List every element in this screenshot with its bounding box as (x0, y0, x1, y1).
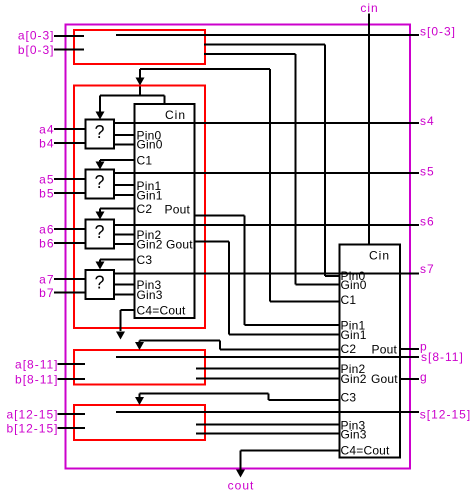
svg-text:s7: s7 (420, 262, 435, 276)
svg-text:b7: b7 (39, 286, 54, 300)
svg-text:?: ? (94, 122, 104, 142)
svg-text:a7: a7 (39, 272, 54, 286)
svg-text:Gin2: Gin2 (341, 372, 367, 386)
svg-text:a[12-15]: a[12-15] (6, 407, 58, 421)
svg-text:cin: cin (360, 1, 378, 15)
svg-text:a5: a5 (39, 172, 54, 186)
svg-text:C1: C1 (341, 293, 357, 307)
svg-text:Pout: Pout (165, 202, 191, 216)
svg-text:C3: C3 (137, 253, 153, 267)
svg-text:Gin3: Gin3 (137, 288, 163, 302)
svg-text:a4: a4 (39, 122, 54, 136)
svg-text:a[8-11]: a[8-11] (15, 357, 58, 371)
svg-text:?: ? (94, 272, 104, 292)
svg-text:Pout: Pout (372, 342, 398, 356)
svg-text:s[0-3]: s[0-3] (420, 24, 456, 38)
svg-text:s5: s5 (420, 164, 435, 178)
svg-text:s[12-15]: s[12-15] (420, 407, 471, 421)
svg-text:Gin1: Gin1 (341, 328, 367, 342)
svg-text:C4=Cout: C4=Cout (137, 303, 187, 317)
svg-text:C3: C3 (341, 390, 357, 404)
svg-text:Gout: Gout (166, 237, 193, 251)
svg-text:Gout: Gout (371, 372, 398, 386)
svg-text:Gin3: Gin3 (341, 427, 367, 441)
svg-text:Gin2: Gin2 (137, 237, 163, 251)
svg-text:s4: s4 (420, 114, 435, 128)
svg-text:b4: b4 (39, 136, 54, 150)
svg-text:Cin: Cin (165, 108, 186, 122)
svg-text:a6: a6 (39, 222, 54, 236)
svg-text:a[0-3]: a[0-3] (18, 28, 55, 42)
svg-text:?: ? (94, 222, 104, 242)
svg-text:b6: b6 (39, 236, 54, 250)
svg-text:cout: cout (228, 478, 255, 492)
svg-text:Gin0: Gin0 (341, 278, 367, 292)
svg-text:C2: C2 (341, 342, 357, 356)
svg-text:C1: C1 (137, 153, 153, 167)
svg-text:b[0-3]: b[0-3] (18, 43, 55, 57)
svg-text:Gin0: Gin0 (137, 137, 163, 151)
svg-text:b5: b5 (39, 186, 54, 200)
svg-text:s[8-11]: s[8-11] (421, 350, 464, 364)
svg-text:C4=Cout: C4=Cout (341, 443, 391, 457)
svg-text:g: g (420, 370, 428, 384)
svg-text:?: ? (94, 172, 104, 192)
svg-text:Gin1: Gin1 (137, 188, 163, 202)
svg-text:s6: s6 (420, 214, 435, 228)
svg-text:b[12-15]: b[12-15] (6, 421, 58, 435)
svg-text:Cin: Cin (369, 248, 390, 262)
svg-text:b[8-11]: b[8-11] (15, 372, 58, 386)
svg-text:C2: C2 (137, 202, 153, 216)
